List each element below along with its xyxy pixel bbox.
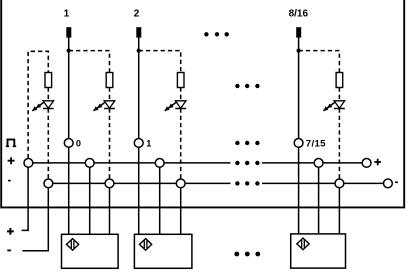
svg-text:0: 0 xyxy=(76,139,81,149)
svg-text:7/15: 7/15 xyxy=(306,139,326,150)
svg-text:1: 1 xyxy=(64,8,70,19)
svg-text:1: 1 xyxy=(146,139,151,149)
svg-text:8/16: 8/16 xyxy=(289,8,309,19)
svg-text:2: 2 xyxy=(134,8,140,19)
